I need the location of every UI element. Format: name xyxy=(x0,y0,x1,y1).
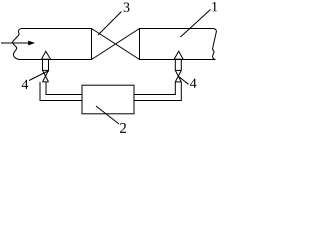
label 4 (left) xyxy=(22,80,29,89)
transmitter box 2 xyxy=(82,85,134,114)
right impulse pipe (double line) xyxy=(134,82,181,101)
label 1 xyxy=(212,2,217,11)
label 4 (right) xyxy=(190,79,197,88)
leader line for 2 xyxy=(96,106,119,124)
pipe section 1 (left run) xyxy=(20,28,92,60)
orifice / throttling element 3 (bowtie) xyxy=(92,29,140,60)
flow arrow xyxy=(1,41,35,46)
right tap valve body xyxy=(175,59,181,70)
right valve V2 (hourglass) xyxy=(175,70,181,82)
leader line for 1 xyxy=(180,10,210,38)
left valve V1 (hourglass) xyxy=(43,70,49,82)
pipe break (left wavy end) xyxy=(12,29,20,60)
left tap valve body xyxy=(43,59,49,70)
leader line for left 4 xyxy=(29,71,49,81)
left pressure tap nozzle xyxy=(41,51,50,59)
right pressure tap nozzle xyxy=(174,51,183,59)
left impulse pipe (double line) xyxy=(40,82,82,101)
pipe section (right run) xyxy=(140,28,216,60)
label 2 xyxy=(120,123,126,133)
label 3 xyxy=(124,2,130,11)
pipe break (right wavy end) xyxy=(213,29,217,60)
leader line for right 4 xyxy=(178,76,189,84)
leader line for 3 xyxy=(98,12,122,36)
